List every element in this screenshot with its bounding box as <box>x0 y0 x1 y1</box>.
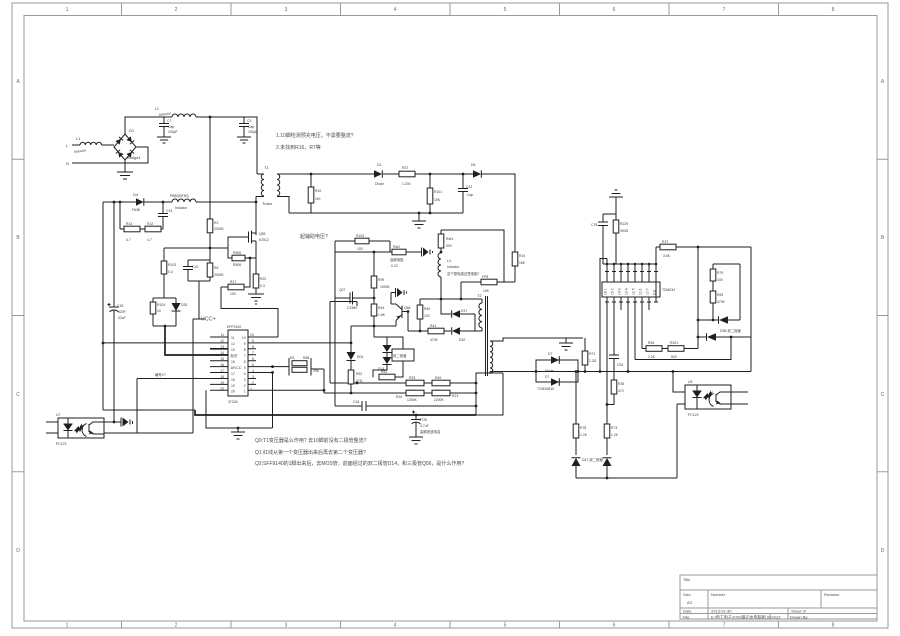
resistor R103b <box>335 234 390 251</box>
wire pin9 right <box>256 342 351 344</box>
svg-text:D33: D33 <box>181 303 187 307</box>
inductor L4 <box>438 251 480 277</box>
svg-text:N: N <box>66 161 69 166</box>
svg-text:14 3: 14 3 <box>618 288 622 295</box>
svg-text:19: 19 <box>220 381 224 385</box>
capacitor C15 electrolytic <box>108 202 127 421</box>
svg-text:R10: R10 <box>315 189 321 193</box>
parallel box C10 R6 top wire <box>188 259 210 261</box>
svg-text:470: 470 <box>618 389 624 393</box>
diode D47b <box>582 457 612 478</box>
resistor R71 <box>582 338 597 372</box>
wire N line <box>72 147 148 163</box>
resistor R37 <box>399 166 415 186</box>
junction R99 Q27 <box>373 297 376 300</box>
wire pin5 pin4 junctions <box>256 367 289 428</box>
svg-text:FP8: FP8 <box>482 275 488 279</box>
svg-text:D1: D1 <box>377 163 381 167</box>
svg-text:C: C <box>881 392 885 398</box>
capacitor C16 <box>353 400 366 411</box>
svg-text:0.22: 0.22 <box>391 264 398 268</box>
wire R13 left up <box>119 202 121 229</box>
junction x476 R16 <box>475 392 478 395</box>
svg-text:18: 18 <box>220 375 224 379</box>
svg-text:R13: R13 <box>126 222 132 226</box>
svg-text:3: 3 <box>285 623 288 629</box>
wire D6 to R24 <box>481 174 515 252</box>
svg-text:100pF: 100pF <box>168 130 178 134</box>
resistor R37b <box>660 240 751 258</box>
svg-text:2: 2 <box>175 623 178 629</box>
svg-text:4.7: 4.7 <box>126 238 131 242</box>
svg-text:R101: R101 <box>434 190 442 194</box>
svg-text:D47-双二极管: D47-双二极管 <box>582 457 604 462</box>
svg-text:高频电阻: 高频电阻 <box>390 257 404 262</box>
svg-text:R34: R34 <box>648 341 654 345</box>
svg-text:VCC+: VCC+ <box>201 317 216 323</box>
svg-text:这个是电感还是电阻?: 这个是电感还是电阻? <box>447 271 480 276</box>
svg-text:D: D <box>16 548 20 554</box>
svg-text:C78: C78 <box>591 223 597 227</box>
svg-text:500: 500 <box>446 244 452 248</box>
svg-text:47Ω: 47Ω <box>356 379 363 383</box>
junction D4 rail C13 <box>162 201 165 204</box>
junction top line R101 <box>429 173 432 176</box>
svg-text:R99: R99 <box>378 278 384 282</box>
ground on T2 top line <box>559 338 573 350</box>
junction D4 rail R13 <box>119 201 122 204</box>
svg-text:10: 10 <box>157 309 161 313</box>
svg-text:R6: R6 <box>214 266 218 270</box>
diode D04 <box>347 352 364 361</box>
junction D38b left <box>697 336 700 339</box>
resistor R52 <box>348 361 363 394</box>
svg-text:1.2K: 1.2K <box>611 433 619 437</box>
junction secondary top R10 <box>310 173 313 176</box>
svg-text:10: 10 <box>250 333 254 337</box>
frame column numbers bottom <box>66 623 835 629</box>
bridge rectifier D1 Bridge1 <box>114 128 142 160</box>
svg-text:1: 1 <box>66 7 69 13</box>
junction header pins top <box>606 263 609 266</box>
svg-text:13 4: 13 4 <box>625 288 629 295</box>
diode D1 <box>374 163 384 186</box>
wire bottom return y213 <box>289 212 463 214</box>
resistor R44 <box>371 298 386 337</box>
svg-text:18: 18 <box>231 378 235 382</box>
R104 D33 box top wire <box>153 297 176 299</box>
svg-text:15 2: 15 2 <box>611 288 615 295</box>
svg-text:FA38: FA38 <box>132 208 140 212</box>
svg-text:Cap: Cap <box>168 125 174 129</box>
svg-text:R2: R2 <box>214 221 218 225</box>
IC pin numbers outside left <box>220 333 224 391</box>
ground under IC <box>231 428 245 439</box>
svg-text:R71: R71 <box>589 352 595 356</box>
junction top rail at R2 <box>209 116 212 119</box>
wire FP8 left down <box>460 282 462 299</box>
junction R506 source <box>249 257 252 260</box>
junction Q56 base <box>407 310 410 313</box>
wire L1 to bridge <box>102 144 114 146</box>
svg-text:R229: R229 <box>620 222 628 226</box>
svg-text:6: 6 <box>252 357 254 361</box>
svg-text:5: 5 <box>504 623 507 629</box>
svg-text:R41: R41 <box>430 324 436 328</box>
transistor Q27 C2389 <box>335 288 374 310</box>
junction x698 D38a <box>697 319 700 322</box>
dual diode D7 TCM30B10 <box>536 352 578 391</box>
svg-text:3.6K: 3.6K <box>663 254 671 258</box>
resistor R101 <box>427 174 442 213</box>
inductor PB80 <box>170 194 196 210</box>
svg-text:R68: R68 <box>303 356 309 360</box>
wire R68 right to x324 <box>311 368 324 370</box>
svg-text:R73: R73 <box>611 426 617 430</box>
svg-text:1: 1 <box>66 623 69 629</box>
svg-text:1200K: 1200K <box>407 398 418 402</box>
svg-text:16: 16 <box>220 363 224 367</box>
svg-text:3: 3 <box>244 378 246 382</box>
frame row ticks right <box>877 159 888 472</box>
wire pin12 to x103 <box>103 342 210 344</box>
wire R506 to R17 <box>244 258 250 287</box>
svg-text:R13: R13 <box>452 394 458 398</box>
inductor L2 <box>172 114 196 117</box>
svg-text:R321: R321 <box>670 341 678 345</box>
svg-text:T2: T2 <box>477 293 482 298</box>
svg-text:高频滤波电容: 高频滤波电容 <box>420 429 441 434</box>
svg-text:3: 3 <box>285 7 288 13</box>
svg-text:D38-双二极管: D38-双二极管 <box>720 328 742 333</box>
wire opto U9 right leads <box>731 392 748 404</box>
IC right pin stubs <box>248 337 256 390</box>
wire Rst3 top line <box>441 230 504 282</box>
svg-text:R35: R35 <box>618 382 624 386</box>
svg-text:470K: 470K <box>717 300 726 304</box>
svg-text:20: 20 <box>231 390 235 394</box>
resistor R13b <box>432 390 458 402</box>
IC pin numbers inside left <box>230 336 241 394</box>
svg-text:100: 100 <box>357 247 363 251</box>
svg-text:D6: D6 <box>471 163 475 167</box>
svg-text:1: 1 <box>244 390 246 394</box>
junction R52 y393 <box>350 392 353 395</box>
resistor R5 <box>289 356 311 376</box>
svg-text:10: 10 <box>242 336 246 340</box>
junction D4 rail C15 <box>113 201 116 204</box>
svg-text:0.3: 0.3 <box>168 270 173 274</box>
title block <box>680 575 877 620</box>
wire thick to IC pin14 <box>165 326 228 355</box>
resistor R22 <box>253 274 266 294</box>
wire right vertical x751 <box>750 247 752 372</box>
resistor R2 <box>207 117 224 248</box>
junction R2 y248 <box>209 247 212 250</box>
IC left pin stub 13 thick <box>210 348 228 350</box>
svg-text:10K: 10K <box>434 198 441 202</box>
svg-text:2200K: 2200K <box>434 398 445 402</box>
svg-text:A3: A3 <box>687 600 693 605</box>
junction D4 rail T1 <box>255 201 258 204</box>
svg-text:12: 12 <box>220 339 224 343</box>
wire Q27 source to R33 line <box>330 302 353 384</box>
svg-text:双二极管: 双二极管 <box>393 353 407 358</box>
svg-text:L2: L2 <box>155 107 159 111</box>
svg-text:100: 100 <box>717 278 723 282</box>
svg-text:11 6: 11 6 <box>639 289 643 295</box>
resistor R33 <box>406 376 424 393</box>
svg-text:EPF9140: EPF9140 <box>227 325 241 329</box>
svg-text:8: 8 <box>832 7 835 13</box>
svg-text:K2512: K2512 <box>259 238 269 242</box>
svg-text:7: 7 <box>252 351 254 355</box>
wire R103 right down <box>389 241 391 252</box>
svg-text:File: File <box>683 615 690 620</box>
svg-text:2.2K: 2.2K <box>648 355 656 359</box>
svg-text:TDM034: TDM034 <box>662 288 675 292</box>
svg-text:Cap: Cap <box>467 193 473 197</box>
junction pin1 x324 <box>323 389 326 392</box>
svg-text:1.10脚检测预充电压，不需要整流?: 1.10脚检测预充电压，不需要整流? <box>276 132 354 139</box>
wire T2 secondary top to gnd line <box>490 338 583 341</box>
diode D47a <box>572 458 581 478</box>
R104 D33 box bottom wire <box>153 325 176 327</box>
junction x476 C16 <box>475 405 478 408</box>
ground below R22 <box>248 294 264 304</box>
optocoupler U7 PC123 <box>46 413 104 446</box>
svg-text:1.200: 1.200 <box>402 182 411 186</box>
svg-text:6: 6 <box>613 623 616 629</box>
wire main output line y371.5 <box>536 371 751 373</box>
svg-text:D7: D7 <box>548 352 552 356</box>
svg-text:D4: D4 <box>133 192 139 197</box>
junction bus C720 <box>415 414 418 417</box>
wire opto bottom to x193 <box>104 319 193 433</box>
parallel box bottom wire <box>188 280 210 282</box>
svg-text:12: 12 <box>231 342 235 346</box>
wire D17 line <box>441 299 451 314</box>
svg-text:12 5: 12 5 <box>632 288 636 295</box>
ground below C7 <box>157 137 171 143</box>
IC pin numbers outside right <box>250 333 254 391</box>
wire D4 rail <box>103 201 256 203</box>
svg-text:Bridge1: Bridge1 <box>127 155 142 160</box>
svg-text:D17: D17 <box>461 309 467 313</box>
svg-text:150pF: 150pF <box>248 130 258 134</box>
wire L pin <box>72 144 80 146</box>
capacitor C78 <box>591 214 608 264</box>
header pin ticks bottom <box>605 301 658 303</box>
svg-text:15: 15 <box>220 357 224 361</box>
svg-text:13: 13 <box>231 348 235 352</box>
svg-text:L4: L4 <box>447 259 451 263</box>
svg-text:Date: Date <box>683 609 692 614</box>
label box dual diode <box>392 349 414 361</box>
svg-text:R506: R506 <box>233 251 241 255</box>
svg-text:C13: C13 <box>166 209 172 213</box>
svg-text:C15: C15 <box>117 304 123 308</box>
svg-text:Number: Number <box>711 592 726 597</box>
svg-text:T1: T1 <box>264 165 269 170</box>
connector J1 TDM034 <box>602 282 675 297</box>
diode D14b <box>378 353 392 372</box>
wire opto top out <box>104 421 119 423</box>
capacitor C3 <box>239 117 258 137</box>
svg-text:1.2K: 1.2K <box>580 433 588 437</box>
svg-text:标识: 标识 <box>230 353 237 358</box>
diode D32 <box>452 327 475 342</box>
transformer T1 <box>256 165 311 213</box>
wire T1 secondary top line <box>311 173 473 175</box>
capacitor C12 <box>458 174 473 213</box>
resistor R24 <box>512 252 526 282</box>
svg-text:9: 9 <box>244 342 246 346</box>
wire D38b loop down <box>635 337 731 360</box>
junction x351 pin9 <box>350 342 353 345</box>
wire R16 R13 line y393 <box>324 392 476 394</box>
svg-text:R40: R40 <box>424 307 430 311</box>
junction y213 ground <box>418 212 421 215</box>
svg-text:10K: 10K <box>483 289 490 293</box>
svg-text:Title: Title <box>683 577 691 582</box>
svg-text:2000K: 2000K <box>214 273 225 277</box>
capacitor C10 <box>183 260 198 281</box>
wire R79 box top <box>713 264 740 320</box>
resistor R79 <box>710 264 723 291</box>
wire left vertical x103 <box>102 202 104 410</box>
svg-text:8: 8 <box>252 345 254 349</box>
svg-text:13: 13 <box>220 345 224 349</box>
wire x698 vertical <box>697 247 699 337</box>
svg-text:1000K: 1000K <box>380 285 391 289</box>
wire Q59 gate <box>228 237 249 258</box>
frame row letters right <box>881 79 885 554</box>
transistor Q56 <box>391 293 411 327</box>
junction main x600 <box>599 370 602 373</box>
resistor R10 <box>308 174 321 213</box>
svg-text:PB80(BF80): PB80(BF80) <box>170 194 189 198</box>
wire T2 secondary bottom <box>476 372 503 416</box>
frame column ticks top <box>122 3 779 16</box>
ground sideways <box>119 418 121 427</box>
svg-text:8: 8 <box>244 348 246 352</box>
junction gnd box <box>237 427 240 430</box>
svg-text:100: 100 <box>230 292 236 296</box>
svg-text:2: 2 <box>244 384 246 388</box>
resistor Rst2 <box>390 245 406 268</box>
junction D38b right <box>730 336 733 339</box>
svg-text:D04: D04 <box>357 355 363 359</box>
bus line y410 <box>103 409 195 411</box>
diode D4 FA38 <box>132 192 144 212</box>
svg-text:1.8K: 1.8K <box>378 313 386 317</box>
svg-text:Diode: Diode <box>375 182 384 186</box>
svg-text:C: C <box>16 392 20 398</box>
svg-text:5: 5 <box>252 363 254 367</box>
svg-text:Q27: Q27 <box>339 288 346 292</box>
svg-text:Revision: Revision <box>824 592 839 597</box>
IC U1 EPF9140 <box>227 325 248 404</box>
resistor R40 <box>417 299 430 331</box>
resistor R73 <box>604 403 619 455</box>
wire Q27 drain down branch <box>350 326 352 352</box>
ground box under IC <box>206 390 273 428</box>
svg-text:3722A: 3722A <box>228 400 239 404</box>
header pin ticks top <box>605 271 658 273</box>
capacitor C720 electrolytic <box>411 411 441 438</box>
wire TDM left loop <box>600 259 607 372</box>
frame row letters left <box>16 79 20 554</box>
svg-text:Size: Size <box>683 592 692 597</box>
svg-text:8: 8 <box>832 623 835 629</box>
svg-text:4: 4 <box>252 369 254 373</box>
ground below C3 <box>237 137 251 143</box>
svg-text:6: 6 <box>613 7 616 13</box>
junction opto out <box>113 421 116 424</box>
svg-text:10 7: 10 7 <box>646 288 650 295</box>
svg-text:R49: R49 <box>435 376 441 380</box>
junction D47b bottom <box>606 477 609 480</box>
junction y299 L4 <box>440 298 443 301</box>
capacitor C13 <box>158 202 172 229</box>
wire D47 bottom <box>576 404 677 478</box>
resistor R12 <box>145 222 163 242</box>
diode D33 zener <box>172 298 188 326</box>
junction main R71 <box>584 370 587 373</box>
svg-text:R33: R33 <box>409 376 415 380</box>
svg-text:L1: L1 <box>76 136 81 141</box>
wire pin1 to x324 <box>256 369 324 393</box>
wire opto U9 feeds <box>673 372 685 405</box>
svg-text:R37: R37 <box>402 166 408 170</box>
svg-text:R79: R79 <box>717 271 723 275</box>
wire y331 line <box>408 330 451 332</box>
resistor R16 <box>396 390 424 402</box>
svg-text:PC123: PC123 <box>688 413 698 417</box>
wire pin10 to R17 branch <box>256 336 278 338</box>
svg-text:4.7uF: 4.7uF <box>420 424 429 428</box>
svg-text:R506: R506 <box>233 263 241 267</box>
wire Q56 base down <box>407 312 409 332</box>
svg-text:520: 520 <box>671 355 677 359</box>
svg-text:PC123: PC123 <box>56 442 66 446</box>
ground below bridge <box>117 160 133 179</box>
wire R17 left to pin row <box>221 287 278 337</box>
svg-text:Q56: Q56 <box>404 306 411 310</box>
svg-text:420F: 420F <box>118 310 126 314</box>
junction main opto <box>672 370 675 373</box>
svg-text:2: 2 <box>252 381 254 385</box>
wire y299 line <box>420 298 482 300</box>
svg-text:Rst3: Rst3 <box>446 237 453 241</box>
diode D14a <box>383 337 392 353</box>
junction R40 bottom <box>419 330 422 333</box>
svg-text:3: 3 <box>252 375 254 379</box>
svg-text:17: 17 <box>220 369 224 373</box>
svg-text:9: 9 <box>252 339 254 343</box>
svg-text:R103: R103 <box>356 234 364 238</box>
resistor R104 <box>150 298 165 326</box>
wire R37b left <box>656 247 660 302</box>
wire gate drive line y252 <box>335 251 421 253</box>
svg-text:C7: C7 <box>167 119 171 123</box>
net arrow gate <box>422 248 433 257</box>
svg-text:2.2Ω: 2.2Ω <box>589 359 597 363</box>
optocoupler U9 PC123 <box>685 380 731 417</box>
diode D17 <box>452 309 475 331</box>
svg-text:19: 19 <box>231 384 235 388</box>
